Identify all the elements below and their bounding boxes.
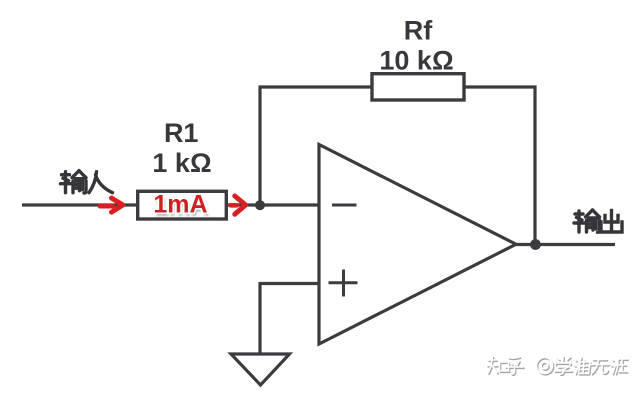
label 输入 (input)	[61, 171, 113, 193]
current arrow out of R1	[231, 196, 246, 214]
svg-text:1 kΩ: 1 kΩ	[152, 148, 211, 178]
wire ground vertical	[258, 282, 261, 354]
wire feedback right vertical	[533, 86, 536, 245]
wire feedback left vertical	[258, 87, 261, 205]
op-amp minus input symbol	[332, 204, 357, 207]
wire feedback top left horizontal	[259, 85, 373, 88]
label 输出 (output)	[574, 210, 622, 232]
resistor Rf body	[372, 74, 464, 100]
svg-text:1mA: 1mA	[153, 191, 207, 219]
output node junction dot	[530, 239, 541, 250]
wire R1 to node A	[226, 203, 260, 206]
watermark white layer	[487, 357, 627, 375]
watermark shadow layer	[488, 358, 628, 376]
wire non-inverting input horizontal	[260, 282, 319, 285]
wire feedback top right horizontal	[464, 85, 537, 88]
svg-text:Rf: Rf	[404, 16, 433, 46]
svg-text:10 kΩ: 10 kΩ	[379, 46, 453, 76]
current arrow into R1	[100, 198, 123, 212]
wire output horizontal	[516, 243, 615, 246]
wire node A to op-amp inverting input	[260, 203, 319, 206]
op-amp U1 triangle	[319, 145, 516, 345]
wire input horizontal	[22, 203, 138, 206]
op-amp plus input symbol	[329, 270, 358, 297]
resistor R1 body	[138, 191, 227, 219]
label 1mA current value	[153, 191, 209, 222]
node A junction dot	[255, 200, 265, 210]
svg-text:R1: R1	[164, 118, 199, 148]
ground	[231, 354, 290, 385]
